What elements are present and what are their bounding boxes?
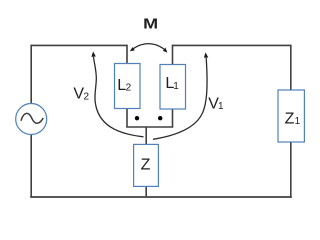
wire left vertical upper: [30, 45, 32, 104]
svg-text:2: 2: [84, 92, 90, 103]
polarity dot right: [158, 116, 162, 120]
wire below L1: [172, 109, 174, 127]
svg-text:1: 1: [173, 81, 179, 92]
svg-text:Z: Z: [141, 157, 151, 174]
svg-text:1: 1: [218, 101, 224, 112]
inductor L1: [160, 65, 186, 110]
wire top-left horizontal: [31, 44, 127, 46]
svg-text:1: 1: [295, 116, 301, 127]
voltage arrow V1: [153, 52, 208, 139]
wire joining inductor bottoms: [126, 126, 173, 128]
polarity dot left: [135, 116, 139, 120]
voltage arrow V2: [91, 51, 143, 136]
impedance Z1: [278, 90, 304, 142]
wire right vertical lower: [290, 142, 292, 198]
svg-text:2: 2: [126, 83, 132, 94]
wire top-right horizontal: [173, 44, 291, 46]
wire drop to L1 top: [172, 45, 174, 65]
wire below L2: [126, 109, 128, 128]
inductor L2: [115, 64, 141, 109]
wire right vertical upper: [290, 45, 292, 90]
svg-text:M: M: [143, 17, 158, 33]
wire center drop to Z: [145, 127, 147, 145]
svg-text:Z: Z: [285, 111, 295, 128]
impedance Z: [134, 144, 159, 186]
wire bottom horizontal: [30, 196, 292, 198]
wire drop to L2 top: [126, 45, 128, 64]
wire Z to bottom rail: [145, 186, 147, 197]
mutual coupling arc M: [130, 44, 168, 53]
AC voltage source: [16, 104, 47, 135]
wire left vertical lower: [30, 134, 32, 197]
